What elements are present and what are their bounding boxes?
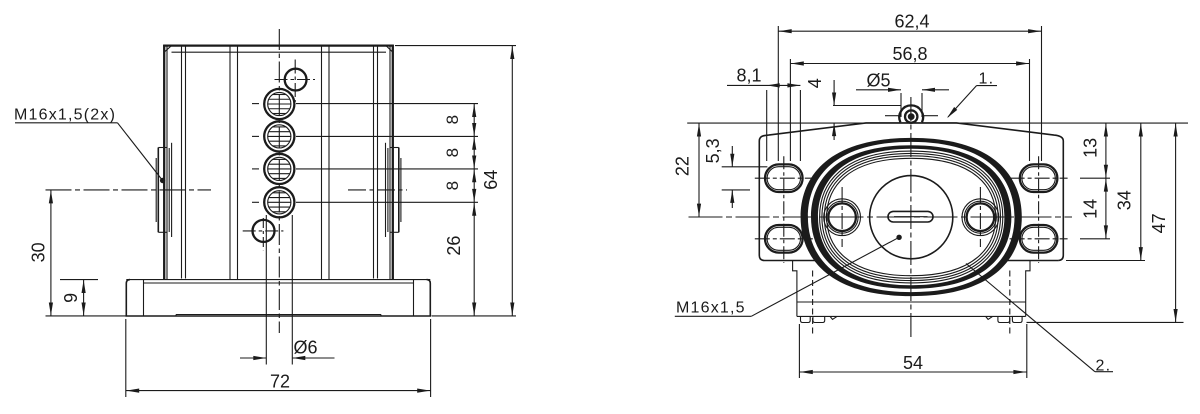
hidden dash line right: [1009, 271, 1011, 337]
central bore circle: [870, 176, 953, 259]
dim 54 ext lines: [798, 324, 800, 378]
dim 13/14 ext lines: [1080, 177, 1110, 179]
dim 64 line: [511, 46, 513, 316]
dim 30 line: [50, 190, 52, 316]
dim 4 line upper: [833, 80, 835, 106]
right boss bottom edge: [390, 231, 399, 233]
threaded hole M at y=168.9: [264, 154, 294, 184]
seal rings: [801, 138, 1022, 296]
seal ring band outer (filled): [801, 138, 1022, 296]
bolt slot at 783.8,178.2: [755, 164, 813, 192]
body top ext right: [395, 45, 516, 47]
seal contour thin 3: [824, 156, 998, 278]
leader dot M16 right view: [896, 235, 901, 240]
dim 9 ext top: [60, 279, 98, 281]
label 2 underline: [1095, 371, 1113, 373]
flange left foot inner edge: [143, 280, 145, 316]
dim 4 line lower: [833, 123, 835, 140]
dim 5,3 ext lines: [722, 166, 768, 168]
dim 22 line: [698, 123, 700, 217]
svg-text:72: 72: [270, 372, 290, 392]
dim 8-stack line: [473, 104, 475, 316]
column line f: [328, 47, 330, 280]
dim 5,3 line upper: [731, 146, 733, 167]
svg-text:26: 26: [444, 236, 464, 256]
left boss secondary face: [155, 158, 157, 222]
dim 72 ext right: [430, 319, 432, 397]
body inner-right edge: [389, 46, 391, 280]
column line b: [185, 47, 187, 279]
plug screw dome: [899, 105, 923, 122]
port circle right: [962, 187, 999, 247]
flange bottom edge: [126, 315, 432, 317]
base top line: [797, 301, 1026, 303]
body centerline vertical: [278, 29, 280, 333]
dim 8,1 line: [727, 84, 800, 86]
label 2 leader: [966, 264, 1095, 372]
label 1 underline: [977, 85, 998, 87]
slot centerline left: [783, 156, 785, 263]
dim Ø6 line left: [240, 357, 266, 359]
dim 54 line: [799, 371, 1026, 373]
svg-text:8: 8: [443, 115, 462, 124]
label M16 underline: [675, 315, 752, 317]
svg-text:Ø5: Ø5: [867, 71, 891, 91]
column line h: [377, 47, 379, 279]
plate bottom edge left segment: [765, 260, 817, 262]
threaded hole M at y=202.3: [264, 187, 294, 217]
hidden dash line left: [812, 271, 814, 337]
top-right chamfer: [386, 46, 393, 53]
bottom notch right: [986, 316, 993, 319]
dim 62,4 ext lines: [777, 26, 779, 161]
bottom notch left: [830, 316, 837, 319]
svg-text:54: 54: [903, 353, 923, 373]
seal contour thin 4: [827, 158, 996, 275]
svg-text:56,8: 56,8: [892, 44, 927, 64]
main vertical centerline: [910, 97, 912, 337]
plate bottom edge right segment: [1006, 260, 1058, 262]
dim Ø6 line right: [292, 357, 334, 359]
flange right edge: [427, 280, 431, 316]
port circle left: [824, 187, 861, 247]
left port boss front face: [157, 148, 159, 233]
label 1 leader: [948, 86, 977, 117]
svg-text:14: 14: [1081, 199, 1101, 219]
bolt slot at 1038.6,238.8: [1010, 225, 1068, 253]
feet tabs: [801, 316, 1023, 322]
hole ext line 1: [296, 103, 478, 105]
small hole bottom (Ø6): [253, 220, 275, 242]
column line a: [181, 47, 183, 279]
dim 72 ext left: [125, 319, 127, 397]
right boss inner edge: [387, 148, 389, 232]
front plate outline: [759, 123, 1063, 261]
right port boss front face: [398, 148, 400, 233]
left boss bottom edge: [158, 231, 167, 233]
seal contour thin 2: [822, 153, 1001, 280]
hole ext line 3: [296, 168, 478, 170]
dim Ø5 line: [856, 89, 901, 91]
top hole horizontal centerline: [275, 79, 316, 81]
seal contour thin 1: [820, 151, 1003, 283]
dim 9 line: [83, 280, 85, 316]
spool slot: [888, 211, 933, 222]
body outer left edge: [163, 45, 165, 280]
svg-text:34: 34: [1115, 190, 1135, 210]
bottom hole horizontal centerline: [243, 230, 284, 232]
svg-text:62,4: 62,4: [894, 12, 929, 32]
plug screw center: [908, 113, 915, 120]
threaded hole M at y=136.4: [264, 121, 294, 151]
left boss top edge: [158, 147, 167, 149]
spool slot midline: [894, 216, 928, 218]
label M16 leader: [751, 237, 899, 316]
body inner-left edge: [166, 46, 168, 280]
bolt slot at 783.8,238.8: [755, 225, 813, 253]
plug screw ring: [905, 110, 917, 122]
svg-text:22: 22: [673, 156, 693, 176]
dim 56,8 ext lines: [789, 59, 791, 161]
svg-text:47: 47: [1149, 213, 1169, 233]
column line d: [237, 47, 239, 280]
top face line with extensions: [687, 122, 1188, 124]
dim 47 ext line: [1027, 321, 1184, 323]
column line g: [373, 47, 375, 279]
bottom hole vertical centerline: [262, 218, 264, 250]
svg-text:64: 64: [481, 170, 501, 190]
dim 47 line: [1175, 123, 1177, 322]
right boss top edge: [390, 147, 399, 149]
svg-text:M16x1,5: M16x1,5: [676, 300, 746, 317]
base right edge: [1025, 302, 1027, 316]
threaded hole row: [264, 89, 294, 218]
top-left chamfer: [164, 46, 171, 53]
dim 34 line: [1140, 123, 1142, 260]
dim 13 line: [1105, 123, 1107, 239]
dim 5,3 line lower: [731, 190, 733, 208]
flange bottom ext right: [432, 315, 517, 317]
svg-text:9: 9: [61, 293, 81, 303]
leader line: [118, 123, 163, 181]
lower housing right edge: [1026, 261, 1030, 303]
svg-text:8,1: 8,1: [737, 65, 762, 85]
dim 56,8 line: [790, 63, 1029, 65]
hole ext line 4: [296, 201, 478, 203]
right boss secondary face: [400, 158, 402, 222]
flange left edge: [126, 280, 130, 316]
svg-text:8: 8: [443, 181, 462, 190]
boss horizontal centerline: [46, 189, 212, 191]
bolt slot at 1038.6,178.2: [1010, 164, 1068, 192]
flange bottom recess line: [176, 314, 381, 316]
plug centerline ticks: [885, 115, 899, 117]
dim Ø6 ext lines: [265, 215, 267, 365]
base left edge: [796, 302, 798, 316]
hole centerline dashes: [252, 104, 259, 203]
column line c: [229, 47, 231, 280]
base bottom edge: [797, 315, 1026, 317]
seal ring band inner (filled): [811, 145, 1011, 289]
flange top edge: [126, 279, 430, 281]
bolt slots: [755, 156, 1068, 263]
body top inner edge: [172, 51, 387, 53]
dim 72 line: [126, 390, 431, 392]
column line e: [321, 47, 323, 280]
svg-text:13: 13: [1081, 138, 1101, 158]
small hole top (Ø6): [285, 69, 307, 91]
dim 34 ext line: [1066, 260, 1145, 262]
recess step left: [175, 315, 177, 317]
body outer right edge: [392, 45, 394, 280]
svg-text:M16x1,5(2x): M16x1,5(2x): [14, 107, 116, 124]
dim 8,1 ext lines: [766, 90, 768, 161]
dim Ø5 ext lines: [900, 93, 902, 117]
top hole vertical centerline: [294, 60, 296, 103]
svg-text:Ø6: Ø6: [294, 338, 318, 358]
left boss back edge: [171, 143, 173, 237]
boss centerline right segment: [348, 189, 407, 191]
flange bottom ext left: [46, 315, 127, 317]
hole ext line 2: [296, 135, 478, 137]
label underline: [15, 122, 118, 124]
slot centerline right: [1038, 156, 1040, 263]
right boss back edge: [385, 143, 387, 237]
lower housing left edge: [793, 261, 797, 303]
svg-text:4: 4: [805, 78, 825, 88]
flange top chamfer line: [144, 282, 414, 284]
threaded hole M at y=104.0: [264, 89, 294, 119]
svg-text:5,3: 5,3: [703, 138, 723, 163]
recess step right: [380, 315, 382, 317]
dim 4 ext line: [833, 105, 901, 107]
svg-text:8: 8: [443, 148, 462, 157]
main horizontal centerline: [689, 216, 1073, 218]
flange right foot inner edge: [413, 280, 415, 316]
leader dot M16 left view: [160, 178, 165, 183]
dim 62,4 line: [778, 30, 1041, 32]
left boss inner edge: [168, 148, 170, 232]
body top edge thick: [163, 44, 394, 46]
svg-text:30: 30: [29, 242, 49, 262]
svg-text:1.: 1.: [979, 71, 995, 88]
